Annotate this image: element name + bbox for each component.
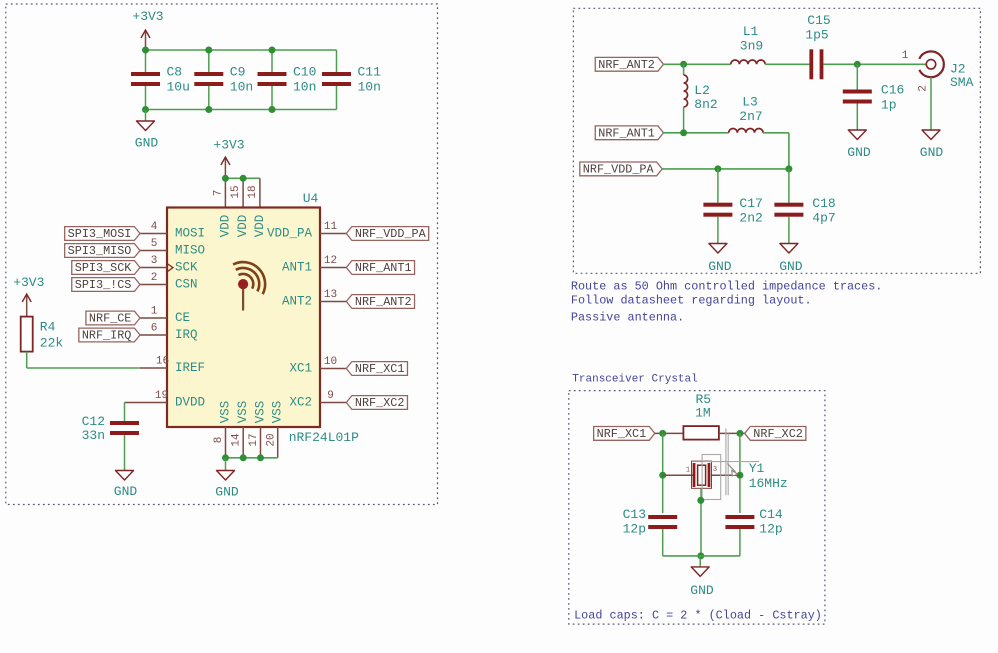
svg-text:VDD: VDD: [218, 215, 232, 238]
svg-text:NRF_ANT1: NRF_ANT1: [598, 126, 655, 140]
svg-text:C11: C11: [358, 65, 382, 80]
svg-text:3: 3: [713, 466, 717, 474]
svg-text:XC1: XC1: [289, 362, 312, 376]
svg-text:2: 2: [918, 85, 930, 92]
svg-text:SPI3_MISO: SPI3_MISO: [68, 244, 132, 258]
svg-text:2n7: 2n7: [739, 109, 762, 124]
svg-text:IREF: IREF: [175, 361, 205, 375]
svg-text:20: 20: [265, 433, 277, 446]
svg-text:11: 11: [324, 221, 338, 233]
svg-text:1: 1: [902, 50, 909, 62]
svg-text:NRF_IRQ: NRF_IRQ: [82, 329, 132, 343]
svg-text:L3: L3: [742, 95, 758, 110]
svg-text:12p: 12p: [759, 521, 782, 536]
svg-text:9: 9: [327, 390, 334, 402]
svg-text:GND: GND: [135, 136, 159, 151]
svg-text:1: 1: [686, 467, 690, 475]
svg-text:14: 14: [231, 433, 243, 447]
svg-text:GND: GND: [215, 484, 239, 499]
svg-text:15: 15: [230, 185, 242, 198]
svg-text:C16: C16: [881, 83, 904, 98]
svg-text:GND: GND: [114, 484, 138, 499]
svg-text:16MHz: 16MHz: [749, 476, 788, 491]
svg-text:10: 10: [324, 356, 337, 368]
svg-text:5: 5: [151, 238, 158, 250]
svg-text:3n9: 3n9: [740, 39, 763, 54]
svg-text:VDD: VDD: [253, 215, 267, 238]
svg-text:CSN: CSN: [175, 278, 198, 292]
svg-text:18: 18: [247, 185, 259, 198]
svg-text:C15: C15: [807, 13, 830, 28]
svg-text:33n: 33n: [82, 428, 105, 443]
svg-text:C17: C17: [739, 196, 762, 211]
svg-text:C10: C10: [293, 65, 316, 80]
svg-text:1p: 1p: [881, 98, 897, 113]
svg-text:L2: L2: [694, 83, 710, 98]
svg-text:VSS: VSS: [236, 401, 250, 424]
svg-text:6: 6: [151, 322, 158, 334]
svg-text:22k: 22k: [40, 336, 64, 351]
svg-text:NRF_CE: NRF_CE: [89, 312, 131, 326]
svg-text:C13: C13: [623, 507, 646, 522]
svg-text:7: 7: [213, 190, 225, 197]
svg-text:C9: C9: [230, 65, 246, 80]
svg-text:10n: 10n: [230, 80, 253, 95]
svg-text:XC2: XC2: [289, 396, 312, 410]
svg-text:10n: 10n: [358, 80, 381, 95]
svg-text:GND: GND: [920, 145, 944, 160]
svg-text:NRF_VDD_PA: NRF_VDD_PA: [583, 162, 655, 176]
svg-text:VSS: VSS: [271, 401, 285, 424]
svg-text:16: 16: [156, 355, 169, 367]
svg-text:13: 13: [324, 289, 337, 301]
svg-text:GND: GND: [708, 259, 732, 274]
svg-text:19: 19: [155, 390, 168, 402]
svg-text:R4: R4: [40, 320, 56, 335]
svg-text:C18: C18: [812, 196, 835, 211]
svg-text:4: 4: [151, 221, 158, 233]
svg-text:2: 2: [151, 272, 158, 284]
svg-text:4p7: 4p7: [812, 211, 835, 226]
svg-text:Route as 50 Ohm controlled imp: Route as 50 Ohm controlled impedance tra…: [571, 280, 883, 294]
svg-text:Follow datasheet regarding lay: Follow datasheet regarding layout.: [571, 294, 812, 308]
svg-text:1M: 1M: [695, 406, 711, 421]
svg-text:Load caps: C = 2 * (Cload - Cs: Load caps: C = 2 * (Cload - Cstray): [574, 609, 822, 623]
svg-text:10u: 10u: [167, 80, 190, 95]
svg-text:GND: GND: [779, 259, 803, 274]
svg-text:VSS: VSS: [254, 401, 268, 424]
svg-text:C12: C12: [82, 414, 105, 429]
svg-text:GND: GND: [847, 145, 871, 160]
svg-text:NRF_ANT2: NRF_ANT2: [355, 295, 412, 309]
svg-text:SPI3_SCK: SPI3_SCK: [75, 261, 133, 275]
svg-text:GND: GND: [690, 583, 714, 598]
svg-text:SMA: SMA: [950, 75, 974, 90]
svg-text:2n2: 2n2: [739, 211, 762, 226]
svg-text:IRQ: IRQ: [175, 328, 198, 342]
svg-text:SPI3_MOSI: SPI3_MOSI: [68, 227, 132, 241]
svg-text:U4: U4: [303, 191, 319, 206]
svg-text:NRF_XC1: NRF_XC1: [355, 362, 405, 376]
svg-text:NRF_VDD_PA: NRF_VDD_PA: [355, 227, 427, 241]
svg-text:MOSI: MOSI: [175, 227, 205, 241]
svg-text:nRF24L01P: nRF24L01P: [289, 430, 359, 445]
svg-text:ANT2: ANT2: [282, 295, 312, 309]
svg-text:1p5: 1p5: [805, 28, 828, 43]
svg-text:SCK: SCK: [175, 261, 198, 275]
svg-text:C8: C8: [167, 65, 183, 80]
svg-text:C14: C14: [759, 507, 783, 522]
svg-text:NRF_ANT2: NRF_ANT2: [598, 58, 655, 72]
svg-text:8: 8: [213, 437, 225, 444]
svg-text:VDD_PA: VDD_PA: [267, 227, 313, 241]
svg-text:NRF_XC1: NRF_XC1: [597, 427, 647, 441]
svg-text:VSS: VSS: [219, 401, 233, 424]
svg-text:+3V3: +3V3: [213, 138, 244, 153]
svg-text:17: 17: [248, 433, 260, 446]
svg-text:SPI3_!CS: SPI3_!CS: [75, 278, 132, 292]
svg-text:DVDD: DVDD: [175, 396, 205, 410]
svg-text:+3V3: +3V3: [13, 275, 44, 290]
svg-text:10n: 10n: [293, 80, 316, 95]
svg-text:CE: CE: [175, 311, 190, 325]
svg-text:12: 12: [324, 255, 337, 267]
svg-text:3: 3: [151, 255, 158, 267]
svg-text:12p: 12p: [623, 521, 646, 536]
svg-text:NRF_XC2: NRF_XC2: [753, 427, 803, 441]
svg-text:8n2: 8n2: [694, 97, 717, 112]
svg-text:ANT1: ANT1: [282, 261, 312, 275]
svg-text:VDD: VDD: [236, 215, 250, 238]
svg-text:1: 1: [151, 305, 158, 317]
svg-text:+3V3: +3V3: [132, 9, 163, 24]
svg-text:L1: L1: [743, 24, 759, 39]
svg-text:Y1: Y1: [749, 461, 765, 476]
svg-text:Transceiver Crystal: Transceiver Crystal: [572, 374, 697, 386]
svg-text:Passive antenna.: Passive antenna.: [571, 311, 684, 325]
svg-text:NRF_ANT1: NRF_ANT1: [355, 261, 412, 275]
svg-text:NRF_XC2: NRF_XC2: [355, 396, 405, 410]
svg-text:MISO: MISO: [175, 244, 205, 258]
